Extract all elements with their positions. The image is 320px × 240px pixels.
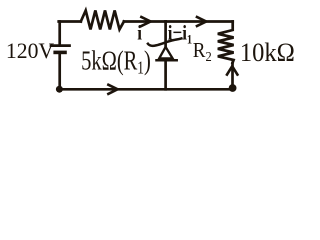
svg-text:i: i	[137, 22, 142, 45]
battery long plate	[51, 44, 70, 47]
arrow current i on top rail	[140, 16, 150, 26]
svg-text:R2: R2	[193, 39, 212, 64]
resistor R1	[81, 11, 124, 30]
wire top rail middle segment	[124, 20, 166, 23]
diode cathode bar (curved swoosh)	[148, 38, 182, 45]
arrow on bottom rail	[107, 84, 117, 94]
wire top rail right segment	[166, 20, 233, 23]
svg-text:i−i1: i−i1	[168, 22, 192, 47]
wire left branch bottom	[58, 54, 61, 90]
diode anode bar	[157, 59, 177, 62]
battery short plate	[55, 51, 65, 55]
svg-text:120V: 120V	[6, 38, 54, 63]
svg-text:5kΩ(R1): 5kΩ(R1)	[81, 47, 151, 78]
diode triangle	[159, 47, 172, 59]
arrow current on top rail toward R2	[196, 16, 206, 26]
wire right branch bottom	[231, 63, 234, 89]
wire left branch top	[58, 22, 61, 45]
wire bottom rail	[59, 88, 233, 91]
arrow up on right branch	[226, 66, 238, 76]
resistor R2 sawtooth	[218, 22, 234, 64]
wire middle branch lower	[164, 61, 167, 89]
wire middle branch upper	[164, 22, 167, 47]
svg-text:10kΩ: 10kΩ	[240, 40, 295, 68]
wire top rail left segment	[59, 20, 81, 23]
junction dot bottom-right	[229, 84, 237, 92]
junction dot bottom-left	[56, 86, 63, 93]
